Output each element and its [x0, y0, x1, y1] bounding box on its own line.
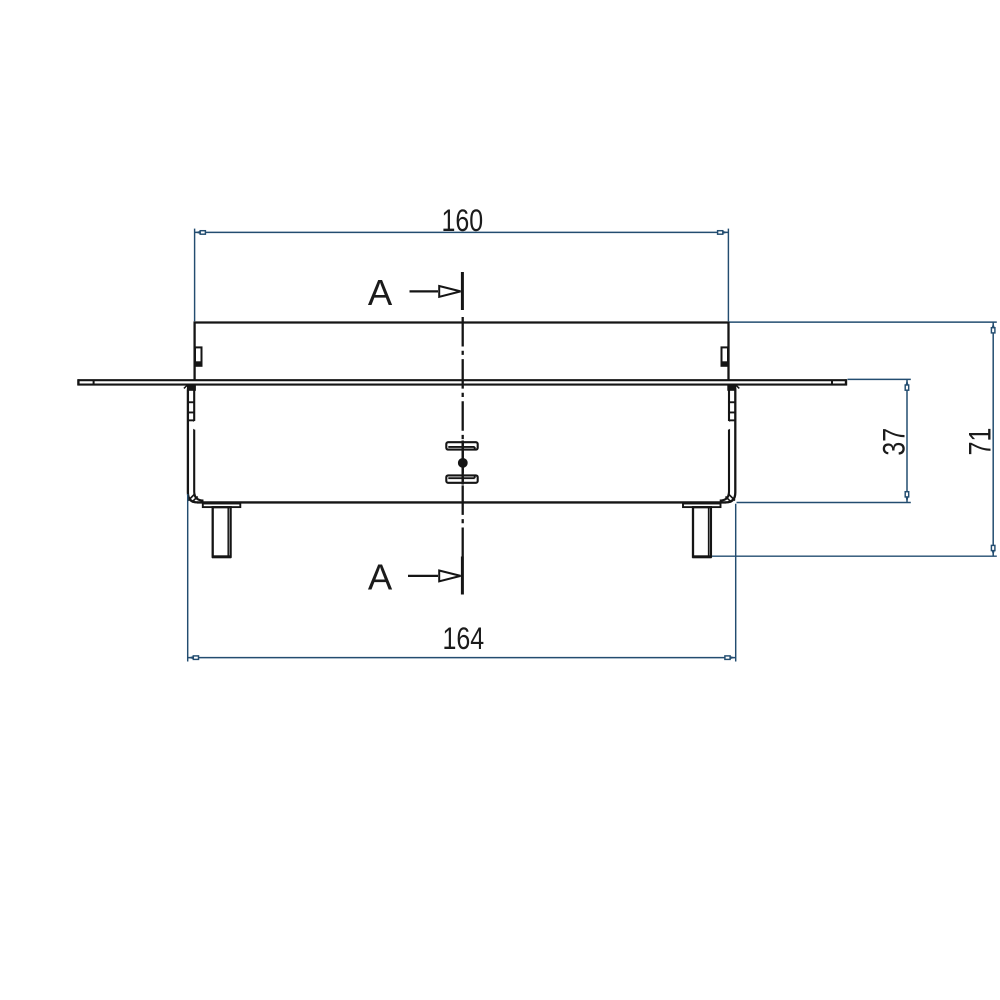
right wall top bend mark	[736, 385, 739, 388]
right upper tab clip	[721, 347, 728, 366]
section line thick end top	[461, 272, 464, 310]
dimension 71 top mark	[991, 322, 995, 333]
svg-text:37: 37	[877, 428, 913, 456]
svg-text:A: A	[368, 272, 393, 313]
dimension 37 extension lines	[737, 379, 911, 502]
right wall joggle notch	[723, 421, 732, 430]
svg-text:71: 71	[963, 428, 999, 456]
svg-text:160: 160	[441, 203, 483, 239]
svg-text:164: 164	[442, 621, 484, 657]
section arrow top	[410, 286, 461, 297]
center pivot dot	[458, 458, 468, 468]
dimension 160 right mark	[718, 231, 729, 235]
center top slot	[446, 442, 477, 450]
dimension 164 line	[188, 657, 736, 659]
dimension 37 bottom mark	[905, 492, 909, 503]
body bottom edge	[197, 501, 726, 503]
dimension 37 top mark	[905, 379, 909, 390]
upper enclosure box outline	[195, 323, 729, 381]
section arrow bottom	[408, 571, 461, 582]
dimension 71 bottom mark	[991, 545, 995, 556]
flange plate	[78, 379, 847, 385]
lower body left wall	[188, 385, 204, 502]
right foot plate	[683, 504, 721, 508]
center solid axis segment	[462, 441, 464, 485]
left bottom corner bend hatch	[188, 494, 198, 503]
dimension 160 left mark	[195, 231, 206, 235]
dimension 37 line	[906, 379, 908, 502]
left wall bend blob and rungs	[187, 385, 196, 421]
left foot plate	[203, 504, 241, 508]
dimension 164 right mark	[725, 656, 736, 660]
svg-text:A: A	[368, 556, 393, 597]
left wall top bend mark	[184, 385, 187, 388]
right wall bend blob and rungs	[727, 385, 736, 421]
left leg	[212, 507, 231, 558]
left wall joggle notch	[192, 421, 201, 430]
center bottom slot	[446, 475, 477, 483]
dimension 164 extension lines	[188, 494, 736, 662]
dimension 160 extension lines	[195, 229, 729, 322]
right leg	[692, 507, 711, 558]
dimension 160 line	[195, 231, 729, 233]
left upper tab clip	[195, 347, 202, 366]
right bottom corner bend hatch	[726, 494, 736, 503]
section line thick end bottom	[461, 557, 464, 595]
section centerline dash-dot	[462, 317, 464, 557]
dimension 71 line	[992, 322, 994, 556]
lower body right wall	[720, 385, 736, 502]
dimension 164 left mark	[188, 656, 199, 660]
dimension 71 extension lines	[712, 322, 997, 556]
